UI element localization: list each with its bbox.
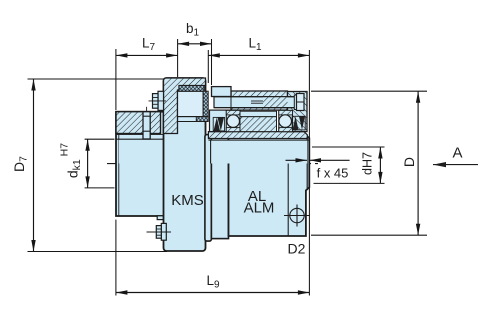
end cover hatched [288,92,308,132]
svg-text:dH7: dH7 [361,152,375,175]
elastomer mesh right column [203,91,208,116]
svg-text:D2: D2 [288,241,306,257]
clamping bolt shank [214,97,297,108]
dimension b1 [178,39,212,85]
elastomer mesh bottom band [196,117,208,122]
inner ring end face line [306,136,308,190]
cage bar [240,111,277,116]
elastomer mesh top band [179,86,204,92]
grub screw center tick [146,107,148,112]
svg-text:KMS: KMS [171,192,204,209]
svg-text:D: D [401,157,417,167]
sleeve/ring joint line upper [205,122,207,132]
bore end face [174,139,176,163]
pressure plate cap [212,87,232,97]
inner sleeve hatched band [208,132,307,139]
dimension dk1 [85,139,115,188]
svg-text:ALM: ALM [244,200,275,217]
step piece behind KMS disc [157,216,165,220]
dimension D7 [28,79,168,252]
dimension L1 [208,50,309,296]
crosshair bolt hole [284,205,310,227]
centerline [107,163,318,165]
svg-text:b1: b1 [186,21,200,39]
svg-text:A: A [452,145,462,162]
hub (lower + upper body) [116,112,164,216]
hub bore cavity [119,140,175,163]
inner region right (bore cavity) [208,140,307,163]
svg-text:dk1 H7: dk1 H7 [59,143,84,178]
left housing region [210,110,232,132]
view arrow A [433,162,478,167]
dimension L7 [116,49,178,110]
bearing right [279,110,293,131]
freewheel sprag zone [240,117,277,132]
hub hatched band [116,112,161,134]
hub step fillet [161,106,164,112]
flange bolt upper (head+washer) [158,91,164,110]
dimension D [311,91,427,235]
svg-text:L1: L1 [248,36,262,54]
chamfer dim f x 45 [286,158,350,162]
bearing cover lower band B [211,135,228,239]
dimension dH7 [312,147,385,183]
left seals [214,117,221,130]
dimension L9 [116,220,310,296]
outer body AL/ALM lower [229,135,310,236]
svg-text:L7: L7 [142,36,156,54]
KMS disc section hatch (top block + web column) [164,78,206,134]
elastomer ring lower band A [205,135,212,242]
bolt head [263,97,288,108]
grub screw [143,112,150,139]
svg-text:f x 45: f x 45 [317,166,349,181]
flange bolt lower [161,223,166,240]
end cover joint line lower [287,140,289,236]
bearing left [226,110,240,131]
KMS disc [164,78,206,251]
bearing housing hatch band [231,91,288,110]
right seals [293,116,299,130]
sleeve tooth inner square [178,91,204,116]
hub corner chamfer [116,112,120,116]
svg-text:L9: L9 [206,273,220,291]
hub bore line [116,138,175,140]
svg-text:D7: D7 [11,156,30,172]
hub chamfer line [118,113,120,216]
hub band lower line [116,134,164,136]
